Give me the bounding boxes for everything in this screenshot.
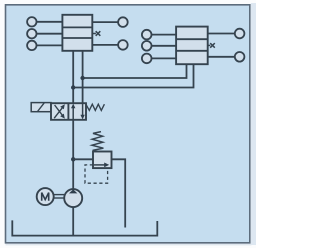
port circle B2 right 2 [235, 52, 245, 62]
crossed arrows position (left square of V1) [54, 104, 65, 118]
port circle B2 left 2 [142, 41, 152, 51]
motor M1 [37, 188, 54, 205]
plugged port x on B2 [208, 43, 215, 48]
port circle B1 right 2 [118, 40, 128, 50]
port circle B1 right 1 [118, 17, 128, 27]
port circle B1 left 3 [27, 41, 36, 50]
wire pump suction to tank [72, 207, 74, 236]
solenoid actuator of valve V1 [31, 103, 51, 112]
pump P1 [64, 189, 82, 207]
junction dot lower [71, 85, 75, 89]
directional valve V1 body [51, 103, 86, 120]
port circle B1 left 1 [27, 17, 36, 26]
junction dot upper [80, 76, 84, 80]
motor letter M [42, 193, 49, 201]
wire B2 right port 1 [208, 33, 235, 35]
wire lower cross line to B2 [73, 64, 193, 87]
wire B1 left port 2 [37, 33, 63, 35]
wire B1 left port 1 [37, 21, 63, 23]
return spring of valve V1 [86, 104, 104, 110]
wire upper cross line to B2 [83, 64, 187, 78]
wire RV1 outlet to tank [112, 159, 126, 227]
wire B1 right port 1 [92, 21, 118, 23]
spring of relief valve RV1 [92, 132, 103, 151]
junction dot at relief valve tee [71, 157, 75, 161]
wire B2 right port 2 [208, 56, 235, 58]
valve block B1 [62, 15, 92, 51]
port circle B2 left 3 [142, 54, 152, 64]
wire B1 bottom to valve V1 port A (vertical) [72, 51, 74, 103]
wire B2 left port 1 [152, 34, 177, 36]
valve block B2 [176, 27, 208, 65]
wire B1 left port 3 [37, 44, 63, 46]
coupling between motor and pump [54, 195, 64, 198]
tank T1 [12, 220, 157, 235]
wire B1 bottom to valve V1 port B (vertical) [82, 51, 84, 103]
wire B2 left port 3 [152, 57, 177, 59]
port circle B2 left 1 [142, 30, 152, 40]
plugged port x on B1 [92, 31, 100, 36]
pilot line of RV1 (dashed) [85, 165, 108, 183]
wire B2 left port 2 [152, 45, 177, 47]
relief valve RV1 body [93, 152, 112, 169]
wire tee to relief valve RV1 inlet [73, 158, 93, 160]
port circle B2 right 1 [235, 29, 245, 39]
port circle B1 left 2 [27, 29, 36, 38]
wire valve V1 to pump (vertical pressure line) [72, 120, 74, 190]
flow arrow inside RV1 [94, 163, 109, 168]
wire B1 right port 2 [92, 44, 118, 46]
parallel arrows position (right square of V1) [71, 103, 85, 120]
